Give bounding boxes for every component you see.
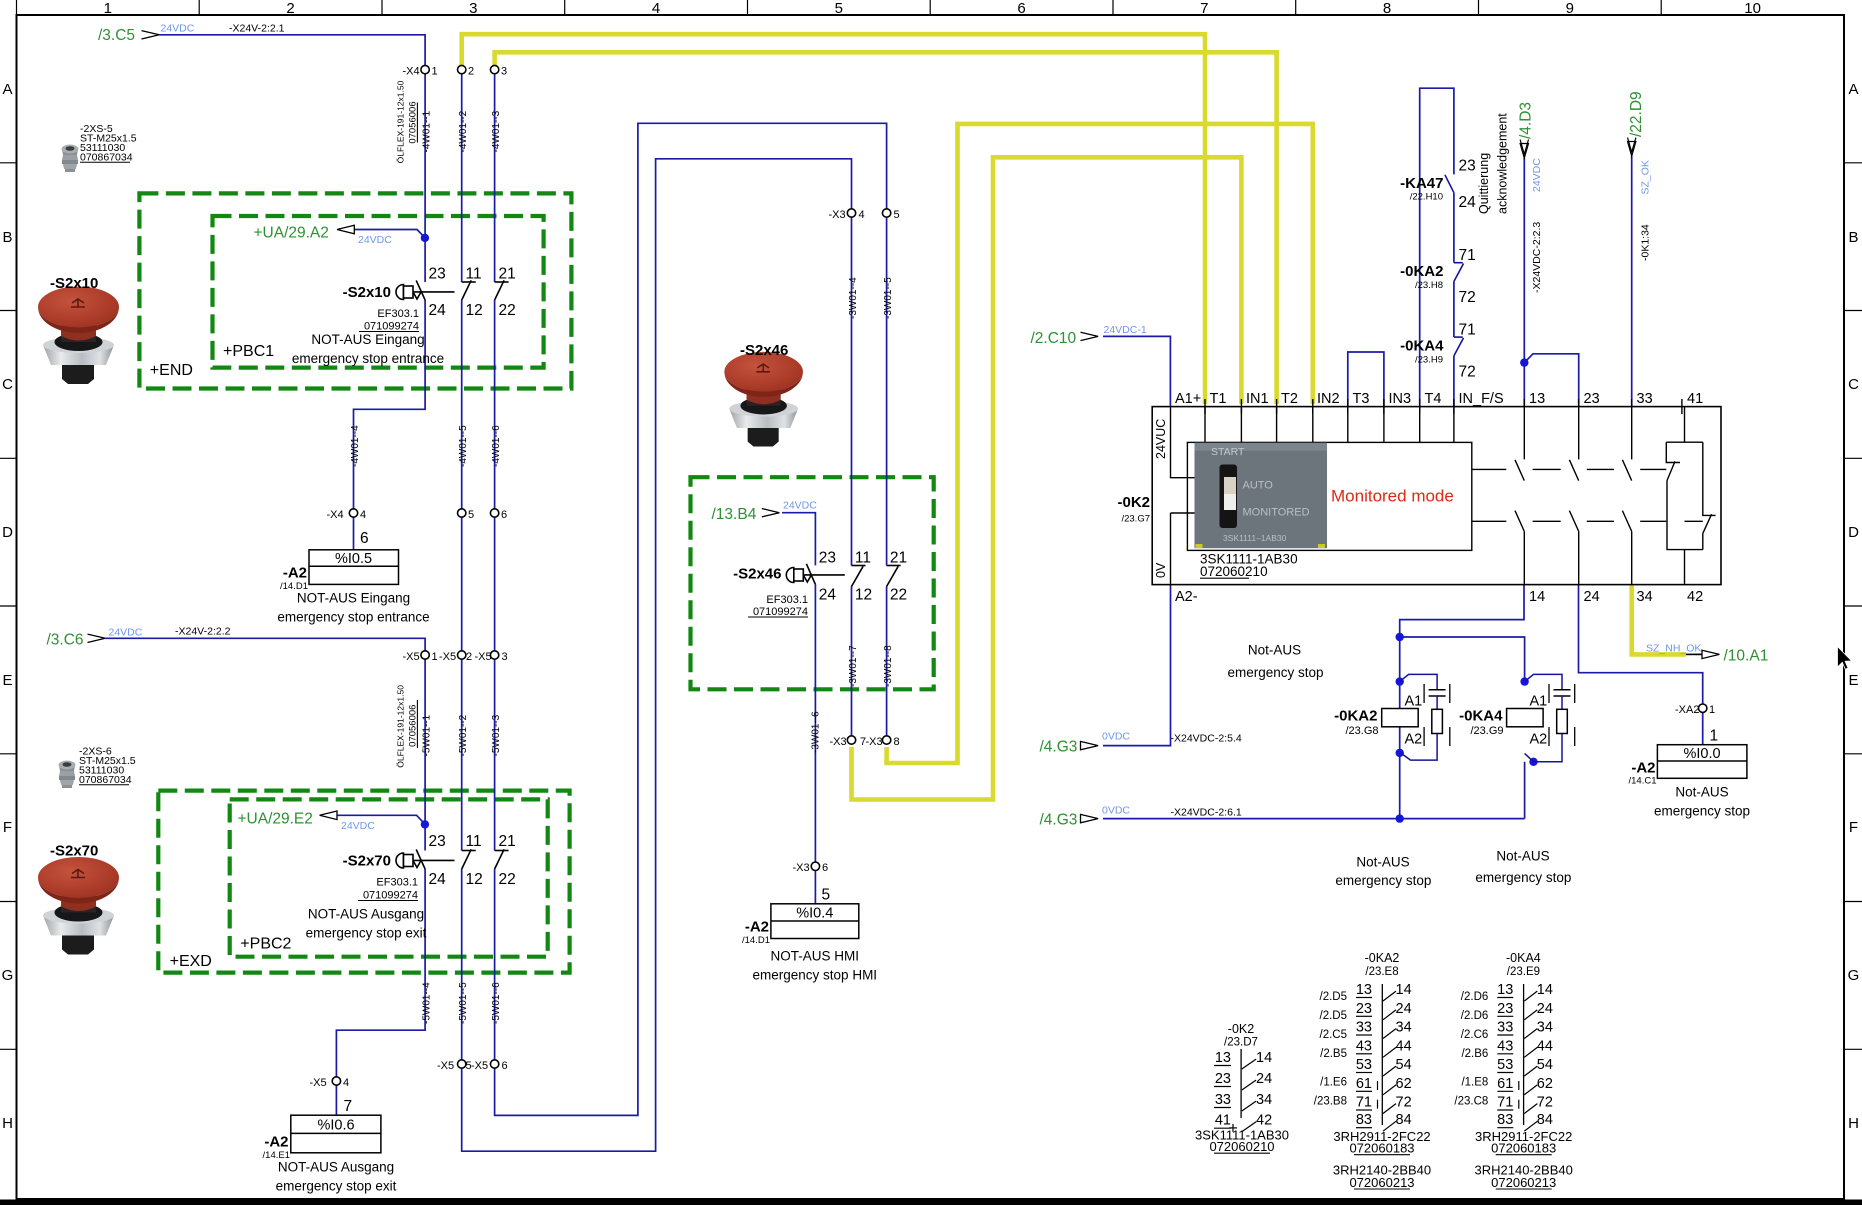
svg-text:2: 2 xyxy=(466,651,472,663)
terminal -X4:6 xyxy=(490,509,498,517)
svg-text:/10.A1: /10.A1 xyxy=(1724,648,1769,665)
svg-text:SZ_NH_OK: SZ_NH_OK xyxy=(1646,642,1701,654)
cable name ÖLFLEX bottom (rotated) xyxy=(396,685,419,768)
terminal -X5:5 xyxy=(458,1060,466,1068)
svg-text:-3W01--4: -3W01--4 xyxy=(848,277,859,319)
contact -S2x70 23/24 NO with e-stop actuator xyxy=(396,849,454,869)
svg-text:-0KA4: -0KA4 xyxy=(1506,951,1541,965)
svg-text:54: 54 xyxy=(1537,1057,1553,1073)
svg-text:NOT-AUS Ausgang: NOT-AUS Ausgang xyxy=(308,907,424,922)
svg-text:-5W01--5: -5W01--5 xyxy=(458,982,469,1024)
svg-text:/23.E9: /23.E9 xyxy=(1507,966,1540,978)
terminal labels -X4 4 5 6 xyxy=(327,509,508,521)
svg-text:acknowledgement: acknowledgement xyxy=(1496,113,1510,214)
function text Not-AUS emergency stop (-0KA2) xyxy=(1335,855,1431,889)
-KA47 contact labels xyxy=(1400,158,1476,212)
svg-text:9: 9 xyxy=(1566,0,1574,17)
svg-text:ÖLFLEX-191-12x1.50: ÖLFLEX-191-12x1.50 xyxy=(396,80,406,163)
svg-text:24VDC: 24VDC xyxy=(161,23,195,35)
wire -X4:1 to -S2x10 contact 23 xyxy=(354,74,425,282)
svg-text:/2.C10: /2.C10 xyxy=(1031,330,1077,347)
svg-text:/2.D5: /2.D5 xyxy=(1320,1010,1348,1022)
svg-text:A: A xyxy=(1848,81,1858,98)
svg-text:07056006: 07056006 xyxy=(407,101,418,143)
coil -0KA2 labels xyxy=(1334,694,1422,748)
svg-text:-X24VDC-2:5.4: -X24VDC-2:5.4 xyxy=(1171,733,1242,745)
svg-text:-A2: -A2 xyxy=(745,919,769,936)
svg-text:24VDC: 24VDC xyxy=(109,626,143,638)
svg-text:0VDC: 0VDC xyxy=(1102,805,1130,817)
svg-text:SZ_OK: SZ_OK xyxy=(1640,160,1652,194)
terminal -X4:1 xyxy=(421,65,429,73)
svg-text:%I0.6: %I0.6 xyxy=(317,1118,354,1134)
svg-text:0VDC: 0VDC xyxy=(1102,731,1130,743)
svg-text:B: B xyxy=(2,229,12,246)
svg-text:A2: A2 xyxy=(1405,732,1423,748)
wire relay A2- to 0VDC /4.G3 xyxy=(1103,585,1171,746)
PLC input box %I0.0 xyxy=(1657,745,1747,779)
svg-text:-5W01--2: -5W01--2 xyxy=(458,714,469,756)
svg-text:/3.C6: /3.C6 xyxy=(47,632,84,649)
wire relay T4 up to acknowledgement contact chain xyxy=(1420,88,1454,406)
svg-text:22: 22 xyxy=(499,871,516,888)
contact cross-reference table -0KA2 xyxy=(1314,951,1431,1190)
svg-text:070867034: 070867034 xyxy=(80,152,133,164)
svg-text:071099274: 071099274 xyxy=(753,606,808,618)
svg-text:8: 8 xyxy=(894,736,900,748)
svg-text:/23.E8: /23.E8 xyxy=(1365,966,1398,978)
svg-text:NOT-AUS Eingang: NOT-AUS Eingang xyxy=(311,332,424,347)
svg-text:-5W01--4: -5W01--4 xyxy=(422,982,433,1024)
svg-text:61: 61 xyxy=(1497,1076,1513,1092)
terminal -X3:5 xyxy=(882,209,890,217)
photo: emergency stop button -S2x70 xyxy=(38,857,119,955)
svg-text:/14.D1: /14.D1 xyxy=(742,935,770,946)
svg-text:43: 43 xyxy=(1356,1038,1372,1054)
svg-text:emergency stop: emergency stop xyxy=(1227,665,1323,680)
svg-text:-A2: -A2 xyxy=(264,1134,288,1151)
svg-text:33: 33 xyxy=(1497,1020,1513,1036)
contact -S2x46 23/24 NO with e-stop actuator xyxy=(786,564,844,585)
svg-text:-0KA4: -0KA4 xyxy=(1400,338,1444,355)
svg-text:42: 42 xyxy=(1256,1113,1272,1129)
svg-text:-0KA2: -0KA2 xyxy=(1334,708,1377,725)
svg-text:-3W01--5: -3W01--5 xyxy=(883,277,894,319)
svg-text:EF303.1: EF303.1 xyxy=(376,877,418,889)
svg-text:2: 2 xyxy=(468,66,474,78)
svg-text:emergency stop exit: emergency stop exit xyxy=(306,926,427,941)
svg-text:072060210: 072060210 xyxy=(1200,564,1268,579)
svg-text:/2.D5: /2.D5 xyxy=(1320,991,1348,1003)
svg-text:emergency stop HMI: emergency stop HMI xyxy=(753,968,878,983)
source arrow /13.B4 xyxy=(712,500,818,524)
-S2x70 device tag and type xyxy=(306,853,427,941)
svg-text:-0K2: -0K2 xyxy=(1228,1022,1254,1036)
svg-text:NOT-AUS HMI: NOT-AUS HMI xyxy=(771,949,860,964)
wire -X5:4 to PLC %I0.6 xyxy=(335,1085,337,1115)
source arrow /4.D3 (vertical) xyxy=(1518,102,1544,293)
svg-text:NOT-AUS Ausgang: NOT-AUS Ausgang xyxy=(278,1160,394,1175)
svg-text:071099274: 071099274 xyxy=(363,890,418,902)
svg-text:/2.B6: /2.B6 xyxy=(1461,1048,1488,1060)
svg-text:62: 62 xyxy=(1396,1076,1412,1092)
svg-text:24VDC: 24VDC xyxy=(783,500,817,512)
contact -S2x10 23/24 NO with e-stop actuator xyxy=(396,280,454,300)
svg-text:14: 14 xyxy=(1396,982,1412,998)
PLC box %I0.6 labels xyxy=(263,1098,397,1194)
wire -X4:3 to -S2x10 contact 21 and on to -X4:6 xyxy=(494,74,496,509)
contact cross-reference table -0K2 xyxy=(1195,1022,1289,1154)
source arrow /3.C5 xyxy=(98,22,285,44)
wire -XA2:1 to PLC %I0.0 xyxy=(1702,712,1704,744)
svg-text:5: 5 xyxy=(468,509,474,521)
svg-text:AUTO: AUTO xyxy=(1243,480,1274,492)
svg-text:-0K2: -0K2 xyxy=(1117,494,1150,511)
svg-text:22: 22 xyxy=(890,587,907,604)
svg-text:IN2: IN2 xyxy=(1317,391,1340,407)
-S2x10 device tag and type xyxy=(292,284,444,366)
function text Not-AUS emergency stop (A2 rail) xyxy=(1227,643,1323,681)
svg-text:072060213: 072060213 xyxy=(1349,1175,1414,1190)
svg-text:A1+: A1+ xyxy=(1175,391,1201,407)
svg-text:22: 22 xyxy=(499,302,516,319)
svg-text:emergency stop entrance: emergency stop entrance xyxy=(277,610,429,625)
svg-text:Not-AUS: Not-AUS xyxy=(1496,848,1549,863)
yellow wire -X4:2 to relay T1 xyxy=(462,34,1205,404)
svg-text:44: 44 xyxy=(1537,1038,1553,1054)
terminal labels -X5 4 5 6 xyxy=(310,1060,508,1089)
PLC input box %I0.4 xyxy=(771,904,859,939)
contact -S2x46 11/12 NC xyxy=(852,566,866,587)
relay terminal ticks top xyxy=(1205,399,1682,414)
svg-text:IN3: IN3 xyxy=(1389,391,1412,407)
relay bottom terminal labels xyxy=(1175,589,1703,605)
wire -X5:5 loop up to -X3:4 xyxy=(462,159,852,1151)
terminal labels -X5 1 2 3 xyxy=(403,651,508,663)
wire 24VDC /13.B4 to -S2x46 contact 23 xyxy=(782,513,815,566)
location box +PBC1 (green dashed) xyxy=(213,216,544,368)
svg-text:-4W01--2: -4W01--2 xyxy=(458,110,469,152)
svg-text:-X3: -X3 xyxy=(866,736,883,748)
svg-text:53: 53 xyxy=(1497,1057,1513,1073)
svg-text:13: 13 xyxy=(1215,1050,1231,1066)
svg-text:23: 23 xyxy=(1215,1071,1231,1087)
svg-text:/2.D6: /2.D6 xyxy=(1461,991,1489,1003)
svg-text:12: 12 xyxy=(466,302,483,319)
svg-text:F: F xyxy=(1849,819,1858,836)
svg-text:-4W01--1: -4W01--1 xyxy=(422,110,433,152)
location box +PBC2 (green dashed) xyxy=(230,799,548,956)
terminal -X3:8 xyxy=(882,736,890,744)
svg-text:emergency stop exit: emergency stop exit xyxy=(276,1179,397,1194)
svg-text:6: 6 xyxy=(822,862,828,874)
wire -S2x10 24 to -X4:4 xyxy=(354,300,426,509)
svg-text:24: 24 xyxy=(1537,1001,1553,1017)
svg-text:NOT-AUS Eingang: NOT-AUS Eingang xyxy=(297,591,410,606)
svg-text:/23.G7: /23.G7 xyxy=(1121,514,1150,525)
terminal -X4:2 xyxy=(458,65,466,73)
svg-text:24VDC: 24VDC xyxy=(358,234,392,246)
cable name ÖLFLEX top (rotated) xyxy=(396,80,419,163)
svg-text:Not-AUS: Not-AUS xyxy=(1248,643,1301,658)
yellow wire -X4:3 to relay T2 xyxy=(495,52,1277,404)
svg-text:61: 61 xyxy=(1356,1076,1372,1092)
svg-text:/14.C1: /14.C1 xyxy=(1629,776,1657,787)
svg-text:41: 41 xyxy=(1687,391,1703,407)
terminal -X4:4 xyxy=(349,509,357,517)
svg-text:070867034: 070867034 xyxy=(79,774,132,786)
svg-text:H: H xyxy=(1848,1115,1859,1132)
svg-text:23: 23 xyxy=(429,266,446,283)
svg-text:-X4: -X4 xyxy=(403,66,420,78)
svg-text:072060183: 072060183 xyxy=(1491,1141,1556,1156)
source arrow /3.C6 xyxy=(47,626,231,649)
svg-text:-XA2: -XA2 xyxy=(1675,704,1699,716)
svg-text:24: 24 xyxy=(429,871,447,888)
svg-text:-S2x46: -S2x46 xyxy=(740,342,788,359)
svg-text:-X5: -X5 xyxy=(439,651,456,663)
svg-text:33: 33 xyxy=(1356,1020,1372,1036)
svg-text:13: 13 xyxy=(1529,391,1545,407)
contact -KA47 23/24 NO (acknowledgement) xyxy=(1445,175,1454,193)
svg-text:/2.D6: /2.D6 xyxy=(1461,1010,1489,1022)
source arrow /4.G3 (lower 0VDC) xyxy=(1040,805,1242,829)
relay coil -0KA2 xyxy=(1382,709,1419,727)
relay upper contact rail 13/23/33 xyxy=(1472,414,1667,481)
-0KA4 71/72 labels xyxy=(1400,322,1476,381)
cable gland -2XS-5 text xyxy=(80,123,137,164)
svg-text:-X3: -X3 xyxy=(829,209,846,221)
svg-text:71: 71 xyxy=(1497,1095,1513,1111)
svg-text:6: 6 xyxy=(1017,0,1025,17)
Quittierung acknowledgement (rotated) xyxy=(1477,113,1510,214)
svg-text:71: 71 xyxy=(1356,1095,1372,1111)
svg-text:21: 21 xyxy=(890,550,907,567)
svg-text:/4.G3: /4.G3 xyxy=(1040,812,1078,829)
svg-text:11: 11 xyxy=(466,833,482,850)
contact -0KA4 71/72 NC xyxy=(1454,337,1464,356)
svg-text:Not-AUS: Not-AUS xyxy=(1675,785,1728,800)
wire labels -3W01-7/8/6 (rotated) xyxy=(811,645,894,753)
wire -X3:4 to -S2x46 contact 11 to -X3:7 xyxy=(851,217,853,736)
terminal -X5:1 xyxy=(421,651,429,659)
svg-text:/23.G9: /23.G9 xyxy=(1470,725,1503,737)
svg-text:-S2x70: -S2x70 xyxy=(343,853,391,870)
svg-text:-X24V-2:2.1: -X24V-2:2.1 xyxy=(229,22,285,34)
svg-text:/23.C8: /23.C8 xyxy=(1454,1095,1488,1107)
wire -X3:6 to PLC %I0.4 xyxy=(814,870,816,903)
wire 24VDC-1 /2.C10 to relay A1+ xyxy=(1103,336,1170,406)
frame column numbers xyxy=(104,0,1761,17)
svg-text:-S2x70: -S2x70 xyxy=(50,843,98,860)
svg-text:44: 44 xyxy=(1396,1038,1412,1054)
svg-text:54: 54 xyxy=(1396,1057,1412,1073)
svg-text:-4W01--3: -4W01--3 xyxy=(491,110,502,152)
photo: cable gland -2XS-5 xyxy=(62,145,79,173)
svg-text:1: 1 xyxy=(1710,728,1719,745)
svg-text:G: G xyxy=(2,967,14,984)
svg-text:3: 3 xyxy=(469,0,477,17)
svg-text:-X3: -X3 xyxy=(830,736,847,748)
yellow wire -X3:7 to relay IN1 xyxy=(852,157,1242,799)
relay tag -0K2 xyxy=(1117,494,1150,525)
contact -0KA2 71/72 NC xyxy=(1454,263,1464,282)
wire 24VDC /4.D3 to relay 13 and 23 xyxy=(1524,158,1578,406)
svg-text:-0K1:34: -0K1:34 xyxy=(1640,224,1652,261)
yellow wire -X3:8 to relay IN2 xyxy=(887,124,1313,763)
function text Not-AUS emergency stop (-0KA4) xyxy=(1475,848,1571,885)
svg-text:Monitored mode: Monitored mode xyxy=(1331,487,1454,506)
svg-text:14: 14 xyxy=(1537,982,1553,998)
svg-text:83: 83 xyxy=(1356,1112,1372,1128)
svg-text:/22.H10: /22.H10 xyxy=(1410,192,1443,203)
frame bottom thick bar xyxy=(0,1200,1862,1206)
-0KA4 accessory dashes xyxy=(1549,684,1575,746)
safety relay -0K2 outer box xyxy=(1152,407,1721,585)
wire labels -4W01-1/2/3 (rotated) xyxy=(422,110,503,152)
svg-text:%I0.0: %I0.0 xyxy=(1683,746,1720,762)
svg-text:-5W01--3: -5W01--3 xyxy=(491,714,502,756)
svg-text:emergency stop: emergency stop xyxy=(1475,870,1571,885)
svg-text:-5W01--6: -5W01--6 xyxy=(491,982,502,1024)
svg-text:/22.D9: /22.D9 xyxy=(1628,91,1645,137)
source arrow /2.C10 xyxy=(1031,324,1147,347)
svg-text:-X4: -X4 xyxy=(327,509,344,521)
svg-text:24: 24 xyxy=(1256,1071,1272,1087)
svg-text:-A2: -A2 xyxy=(1631,760,1655,777)
svg-text:+EXD: +EXD xyxy=(170,953,212,970)
svg-text:8: 8 xyxy=(1383,0,1391,17)
svg-text:-3W01--7: -3W01--7 xyxy=(848,645,859,687)
svg-text:72: 72 xyxy=(1459,364,1476,381)
wire -X4:4 to PLC %I0.5 xyxy=(353,517,355,550)
wire -X4:6 to -X5:3 through -S2x70 contact 21 to -X5:6 xyxy=(494,517,496,1060)
svg-text:34: 34 xyxy=(1537,1020,1553,1036)
svg-text:24: 24 xyxy=(1396,1001,1412,1017)
svg-text:2: 2 xyxy=(286,0,294,17)
svg-text:-S2x46: -S2x46 xyxy=(733,566,781,583)
svg-text:+END: +END xyxy=(150,362,193,379)
svg-text:/13.B4: /13.B4 xyxy=(712,506,757,523)
terminal label -X3 6 xyxy=(793,862,829,874)
svg-text:72: 72 xyxy=(1459,289,1476,306)
svg-text:emergency stop: emergency stop xyxy=(1335,873,1431,888)
-0KA4 suppressor branch xyxy=(1525,674,1571,761)
svg-text:-4W01--5: -4W01--5 xyxy=(458,425,469,467)
svg-text:B: B xyxy=(1848,229,1858,246)
svg-text:71: 71 xyxy=(1459,322,1476,339)
-0KA2 71/72 labels xyxy=(1400,247,1476,306)
svg-text:Not-AUS: Not-AUS xyxy=(1356,855,1409,870)
svg-text:G: G xyxy=(1848,967,1860,984)
svg-text:/23.G8: /23.G8 xyxy=(1345,725,1378,737)
svg-text:21: 21 xyxy=(499,833,516,850)
location box +EXD (green dashed) xyxy=(158,791,569,973)
svg-text:21: 21 xyxy=(499,266,516,283)
svg-text:-X24VDC-2:2.3: -X24VDC-2:2.3 xyxy=(1531,222,1543,293)
terminal labels -X4 1 2 3 xyxy=(403,66,508,78)
wire 24VDC /3.C6 to -X5:1 xyxy=(105,638,425,651)
svg-text:IN_F/S: IN_F/S xyxy=(1459,391,1504,407)
svg-text:24VDC-1: 24VDC-1 xyxy=(1104,324,1147,336)
svg-text:-X5: -X5 xyxy=(437,1060,454,1072)
svg-text:+PBC1: +PBC1 xyxy=(223,343,274,360)
svg-text:D: D xyxy=(1848,524,1859,541)
terminal -X5:6 xyxy=(490,1060,498,1068)
svg-text:1: 1 xyxy=(1709,704,1715,716)
svg-text:7: 7 xyxy=(1200,0,1208,17)
svg-text:4: 4 xyxy=(343,1077,349,1089)
svg-text:/3.C5: /3.C5 xyxy=(98,27,135,44)
svg-text:-X5: -X5 xyxy=(403,651,420,663)
svg-text:%I0.5: %I0.5 xyxy=(335,551,372,567)
relay type 3SK1111-1AB30 072060210 xyxy=(1200,552,1298,580)
svg-text:A2: A2 xyxy=(1530,732,1548,748)
svg-text:11: 11 xyxy=(466,266,482,283)
svg-text:A: A xyxy=(2,81,12,98)
svg-text:5: 5 xyxy=(822,887,831,904)
svg-text:34: 34 xyxy=(1256,1092,1272,1108)
svg-text:A1: A1 xyxy=(1405,694,1423,710)
svg-text:72: 72 xyxy=(1537,1095,1553,1111)
svg-text:10: 10 xyxy=(1744,0,1761,17)
wire 0VDC rail -X24VDC-2:6.1 xyxy=(1103,818,1525,820)
svg-text:A1: A1 xyxy=(1530,694,1548,710)
mouse cursor xyxy=(1838,647,1852,670)
PLC input box %I0.5 xyxy=(309,550,399,585)
cable gland -2XS-6 text xyxy=(79,746,136,787)
svg-text:62: 62 xyxy=(1537,1076,1553,1092)
terminal -X5:4 xyxy=(332,1077,340,1085)
svg-text:4: 4 xyxy=(652,0,660,17)
svg-text:C: C xyxy=(2,376,13,393)
svg-text:EF303.1: EF303.1 xyxy=(377,308,419,320)
PLC box %I0.5 labels xyxy=(277,530,429,625)
svg-text:T3: T3 xyxy=(1353,391,1370,407)
-0KA2 suppressor branch xyxy=(1400,674,1446,760)
svg-text:-X5: -X5 xyxy=(475,651,492,663)
-S2x70 contact pin numbers xyxy=(429,833,516,888)
wire relay 14 to -0KA2 / -0KA4 coils xyxy=(1400,585,1525,819)
destination arrow /10.A1 SZ_NH_OK xyxy=(1646,642,1768,664)
svg-text:41: 41 xyxy=(1215,1113,1231,1129)
relay lower contact rail 14/24/34 xyxy=(1472,511,1667,585)
svg-text:07056006: 07056006 xyxy=(407,705,418,747)
svg-text:14: 14 xyxy=(1529,589,1545,605)
relay 41/42 mirror contact block xyxy=(1666,407,1715,585)
svg-text:-X5: -X5 xyxy=(310,1077,327,1089)
-S2x46 device tag and type xyxy=(733,566,808,619)
svg-text:A2-: A2- xyxy=(1175,589,1198,605)
svg-text:/1.E8: /1.E8 xyxy=(1461,1077,1488,1089)
relay coil -0KA4 xyxy=(1507,709,1544,727)
svg-text:3SK1111–1AB30: 3SK1111–1AB30 xyxy=(1223,533,1287,543)
svg-text:24: 24 xyxy=(1584,589,1600,605)
svg-text:emergency stop: emergency stop xyxy=(1654,804,1750,819)
contact -S2x70 11/12 NC xyxy=(462,849,476,869)
terminal labels -X3 4 5 xyxy=(829,209,900,221)
svg-text:-3W01--6: -3W01--6 xyxy=(811,711,822,753)
svg-text:24VDC: 24VDC xyxy=(1531,158,1543,192)
-S2x46 contact pin numbers xyxy=(819,550,907,604)
wire -X3:5 to -S2x46 contact 21 to -X3:8 xyxy=(886,217,888,736)
terminal labels -X3 7 8 xyxy=(830,736,900,748)
svg-text:-0KA4: -0KA4 xyxy=(1459,708,1503,725)
-S2x10 contact pin numbers xyxy=(429,266,516,320)
svg-text:1: 1 xyxy=(104,0,112,17)
wire -X4:5 to -X5:2 through -S2x70 contact 11 to -X5:5 xyxy=(461,517,463,1060)
svg-text:23: 23 xyxy=(429,833,446,850)
